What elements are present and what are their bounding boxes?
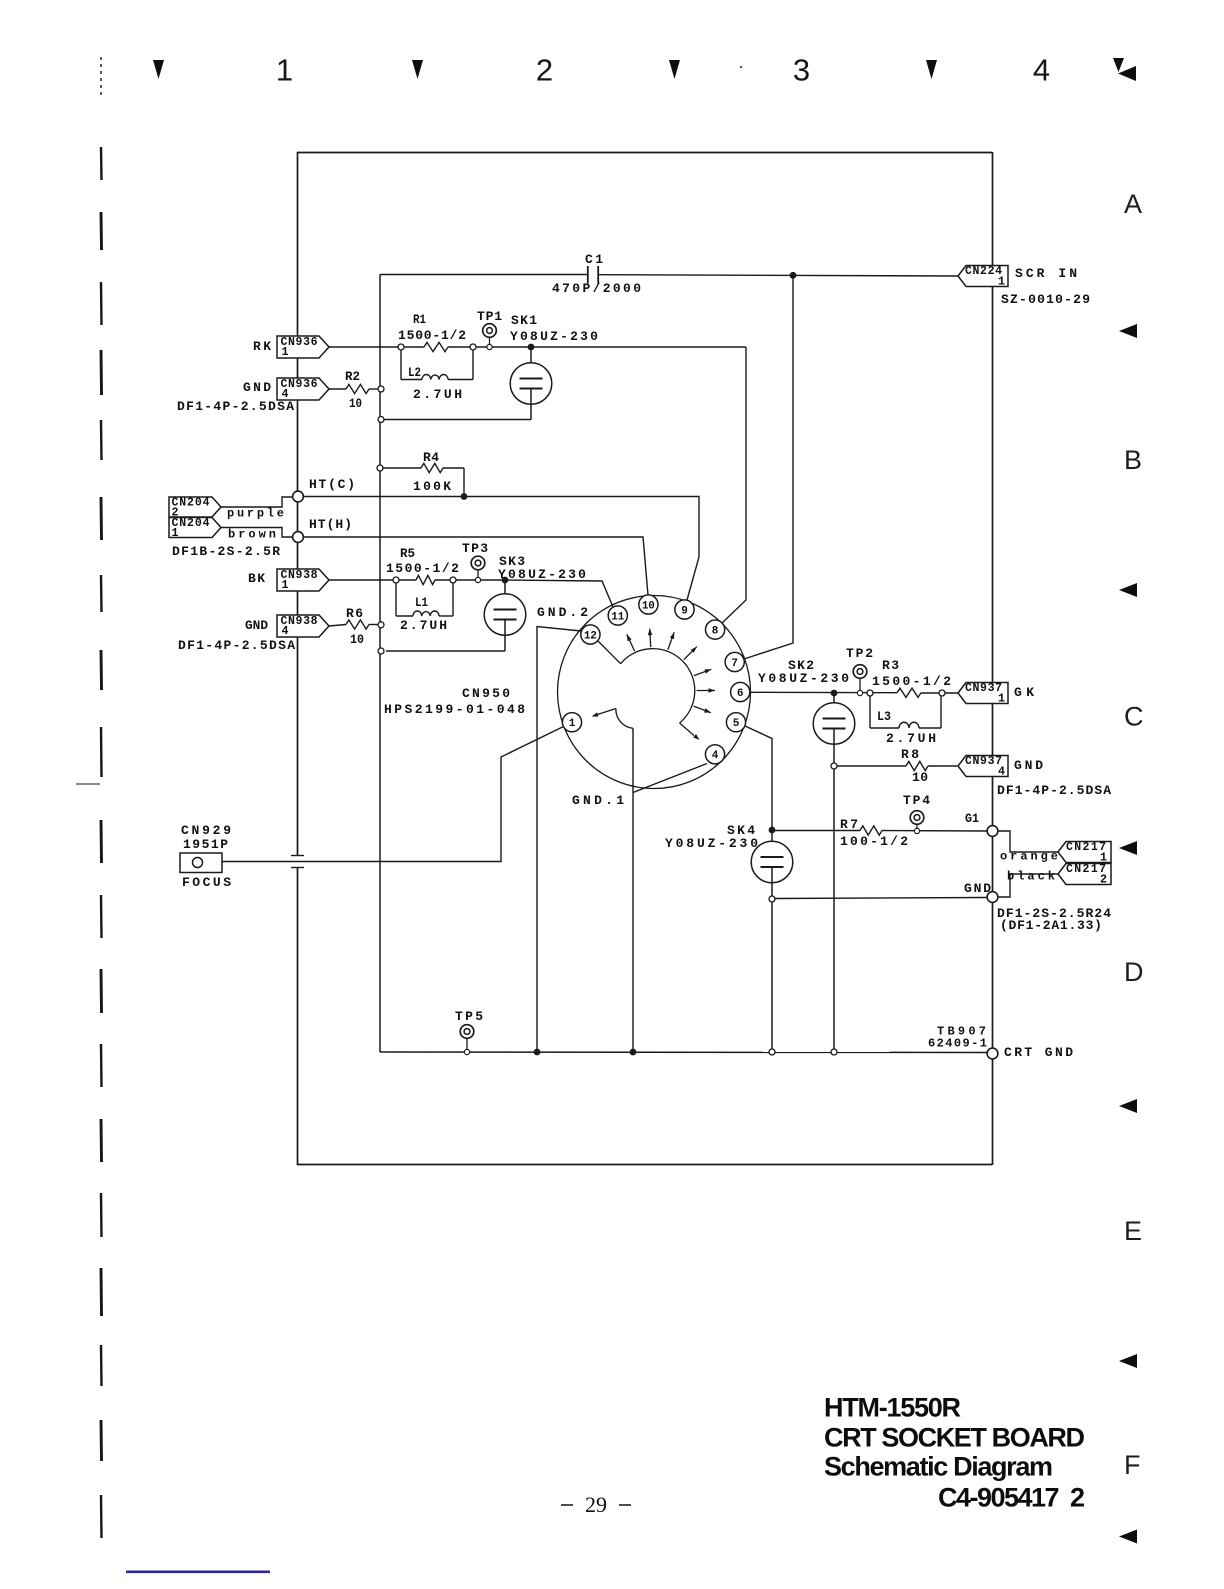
svg-text:DF1B-2S-2.5R: DF1B-2S-2.5R: [172, 544, 281, 559]
blue scan mark: [126, 1571, 270, 1574]
test point TP1: [477, 309, 503, 350]
svg-text:6: 6: [737, 688, 744, 700]
svg-text:4: 4: [998, 765, 1005, 778]
connector CN936 pin 4 (GND): [243, 378, 329, 401]
svg-text:1: 1: [998, 692, 1005, 705]
socket pin 11: [608, 606, 627, 625]
svg-text:G1: G1: [965, 811, 979, 826]
connector CN938 pin 4 (GND): [245, 615, 329, 638]
wire: HT(H) net to pin 10: [303, 517, 648, 595]
svg-text:R7: R7: [840, 817, 860, 832]
svg-text:E: E: [1124, 1216, 1142, 1246]
svg-text:BK: BK: [248, 571, 266, 586]
svg-text:C1: C1: [585, 252, 605, 267]
svg-text:(DF1-2A1.33): (DF1-2A1.33): [1000, 918, 1103, 933]
left margin binder marks: [76, 57, 102, 1538]
wire: SK4 to GND node: [775, 898, 987, 899]
svg-text:HPS2199-01-048: HPS2199-01-048: [384, 702, 528, 717]
svg-text:orange: orange: [1000, 849, 1061, 863]
socket pin 8: [706, 620, 725, 639]
svg-text:GK: GK: [1014, 685, 1038, 700]
connector CN224 pin 1 (SCR IN): [958, 265, 1091, 307]
svg-text:1951P: 1951P: [183, 837, 230, 852]
svg-text:29: 29: [585, 1492, 607, 1517]
node CRT GND (TB907): [928, 1024, 1075, 1060]
svg-text:Y08UZ-230: Y08UZ-230: [665, 836, 761, 851]
inductor L1: [396, 583, 453, 633]
svg-text:DF1-4P-2.5DSA: DF1-4P-2.5DSA: [177, 399, 295, 414]
capacitor C1: [552, 252, 643, 296]
label DF1-2S-2.5R24: [997, 906, 1112, 933]
svg-text:HT(C): HT(C): [309, 477, 357, 492]
svg-text:1: 1: [172, 527, 179, 540]
svg-text:RK: RK: [253, 339, 273, 354]
corner crop mark: [1113, 58, 1136, 81]
wire: RK net: [329, 346, 746, 348]
svg-text:GND: GND: [243, 380, 273, 395]
svg-text:L3: L3: [877, 709, 891, 724]
wire: HT(C) net to pin 9: [303, 477, 699, 600]
svg-text:TP1: TP1: [477, 309, 503, 324]
node G1: [965, 811, 1058, 852]
svg-text:Y08UZ-230: Y08UZ-230: [758, 671, 852, 686]
svg-text:DF1-4P-2.5DSA: DF1-4P-2.5DSA: [997, 783, 1112, 798]
spark gap SK3: [484, 554, 588, 651]
svg-text:100K: 100K: [413, 479, 453, 494]
svg-text:R5: R5: [400, 546, 415, 561]
svg-text:CRT GND: CRT GND: [1004, 1045, 1075, 1060]
svg-text:10: 10: [350, 632, 364, 647]
svg-text:8: 8: [712, 625, 719, 637]
test point TP2: [846, 646, 875, 696]
connector CN204 pin 1 (brown): [169, 517, 293, 541]
svg-text:TP3: TP3: [462, 541, 489, 556]
svg-text:CN937: CN937: [965, 682, 1003, 695]
right margin arrows: [1119, 324, 1137, 1544]
label DF1-4P-2.5DSA (3): [997, 783, 1112, 798]
svg-text:1: 1: [998, 275, 1005, 288]
wire: BK net to pin 11: [505, 580, 613, 607]
wire: pin 1 to FOCUS: [222, 727, 564, 862]
svg-text:D: D: [1124, 957, 1144, 987]
svg-text:4: 4: [282, 625, 289, 638]
label DF1-4P-2.5DSA: [177, 399, 295, 414]
svg-text:CN929: CN929: [181, 823, 234, 838]
inductor L3: [870, 696, 941, 746]
svg-text:3: 3: [793, 53, 810, 88]
test point TP4: [903, 793, 932, 834]
node HT(C): [293, 491, 304, 502]
svg-text:R1: R1: [413, 312, 426, 327]
socket pin 7: [725, 652, 744, 671]
svg-text:10: 10: [912, 770, 928, 785]
svg-text:TP5: TP5: [455, 1009, 485, 1024]
svg-text:2.7UH: 2.7UH: [886, 731, 939, 746]
svg-text:brown: brown: [228, 527, 279, 541]
wire: GK net (pin 6): [750, 691, 958, 694]
svg-text:Y08UZ-230: Y08UZ-230: [510, 329, 600, 344]
svg-text:FOCUS: FOCUS: [182, 875, 234, 890]
socket pin 6: [731, 682, 750, 701]
svg-text:black: black: [1007, 869, 1058, 883]
node HT(H): [293, 532, 304, 543]
connector CN217 pin 2 (black): [1007, 863, 1111, 887]
connector CN204 pin 2 (purple): [169, 497, 293, 521]
svg-text:11: 11: [611, 611, 624, 623]
svg-text:9: 9: [681, 605, 688, 617]
svg-text:R6: R6: [346, 606, 364, 621]
spark gap SK2: [758, 658, 855, 1055]
wire: pin 5 to SK4: [745, 726, 772, 830]
svg-text:R2: R2: [345, 369, 360, 384]
svg-text:470P/2000: 470P/2000: [552, 281, 643, 296]
svg-text:1: 1: [569, 718, 576, 730]
wire: ground bus bottom: [380, 1051, 988, 1054]
svg-text:GND: GND: [1014, 758, 1046, 773]
connector CN937 pin 4 (GND): [958, 755, 1046, 778]
svg-text:C: C: [1124, 702, 1144, 732]
resistor R2: [329, 369, 384, 411]
wire: focus crossover ticks on border: [291, 856, 304, 868]
resistor R3: [867, 658, 953, 697]
svg-text:TP2: TP2: [846, 646, 875, 661]
svg-text:C4-905417 2: C4-905417 2: [938, 1483, 1085, 1513]
svg-text:B: B: [1124, 445, 1142, 475]
spark gap SK1: [510, 313, 600, 420]
wire: SCR net vertical to pin 7: [744, 275, 793, 659]
title block: [824, 1393, 1085, 1513]
CRT socket CN950 body: [558, 596, 751, 789]
svg-text:4: 4: [1033, 53, 1050, 88]
junction node on SCR net: [790, 272, 797, 279]
svg-text:HTM-1550R: HTM-1550R: [824, 1393, 961, 1423]
resistor R6: [329, 606, 384, 647]
wire: ground bus vertical: [379, 275, 381, 1053]
svg-text:7: 7: [731, 658, 738, 670]
svg-text:2: 2: [1100, 874, 1107, 887]
svg-text:GND: GND: [245, 618, 268, 633]
svg-text:DF1-4P-2.5DSA: DF1-4P-2.5DSA: [178, 638, 296, 653]
connector CN937 pin 1 (GK): [958, 682, 1038, 705]
svg-text:1: 1: [282, 579, 289, 592]
svg-text:SZ-0010-29: SZ-0010-29: [1001, 292, 1091, 307]
resistor R8: [837, 747, 958, 785]
zone numbers 1 2 3 4: [276, 53, 1050, 88]
test point TP5: [455, 1009, 485, 1055]
socket pin 4: [705, 745, 724, 764]
svg-text:5: 5: [733, 718, 740, 730]
svg-text:CRT SOCKET BOARD: CRT SOCKET BOARD: [824, 1423, 1085, 1453]
wire: pin 4 to GND.1: [633, 764, 707, 793]
wire: BK net: [329, 579, 505, 581]
socket pin 5: [726, 713, 745, 732]
label DF1-4P-2.5DSA (2): [178, 638, 296, 653]
svg-text:4: 4: [712, 750, 719, 762]
resistor R7: [769, 817, 987, 849]
inductor L2: [401, 350, 473, 402]
svg-text:GND.2: GND.2: [537, 605, 591, 620]
connector CN938 pin 1 (BK): [248, 569, 329, 592]
svg-text:GND.1: GND.1: [572, 793, 627, 808]
node GND (CRT G1 return): [964, 874, 1058, 902]
svg-text:12: 12: [584, 630, 597, 642]
svg-text:CN950: CN950: [462, 686, 512, 701]
svg-text:CN224: CN224: [965, 265, 1003, 278]
svg-text:10: 10: [642, 600, 655, 612]
wire: SK1 ground return: [378, 417, 531, 423]
socket pin 1: [562, 713, 581, 732]
svg-text:2: 2: [536, 53, 553, 88]
socket pin 9: [675, 600, 694, 619]
svg-text:purple: purple: [227, 506, 287, 520]
wire: SK3 ground return: [378, 648, 505, 654]
top column markers: [153, 60, 937, 79]
svg-text:10: 10: [349, 396, 362, 411]
svg-text:A: A: [1124, 189, 1142, 219]
wire: RK net to pin 8: [722, 347, 746, 623]
label DF1B-2S-2.5R: [172, 544, 281, 559]
wire: top bus (SCR IN net): [380, 275, 958, 277]
socket pin 10: [639, 595, 658, 614]
svg-text:R4: R4: [423, 450, 439, 465]
svg-text:F: F: [1124, 1450, 1141, 1480]
connector CN929 (FOCUS): [180, 823, 234, 890]
svg-text:100-1/2: 100-1/2: [840, 834, 910, 849]
svg-text:R8: R8: [901, 747, 921, 762]
svg-text:2.7UH: 2.7UH: [400, 618, 449, 633]
svg-text:1: 1: [276, 53, 293, 88]
svg-text:SK1: SK1: [511, 313, 538, 328]
wire: GND.2 (pin 12 to ground bus): [534, 605, 591, 1055]
socket pin 12: [581, 625, 600, 644]
svg-text:R3: R3: [882, 658, 900, 673]
svg-text:1: 1: [282, 346, 289, 359]
svg-text:TP4: TP4: [903, 793, 932, 808]
svg-text:Schematic Diagram: Schematic Diagram: [824, 1452, 1053, 1482]
svg-text:L2: L2: [408, 365, 421, 380]
svg-text:1500-1/2: 1500-1/2: [398, 328, 467, 343]
zone letters A-F: [1124, 189, 1144, 1480]
svg-text:2.7UH: 2.7UH: [413, 387, 465, 402]
svg-text:SCR IN: SCR IN: [1015, 266, 1080, 281]
svg-text:1500-1/2: 1500-1/2: [386, 561, 461, 576]
resistor R5: [386, 546, 461, 585]
svg-text:HT(H): HT(H): [309, 517, 353, 532]
resistor R1: [398, 312, 476, 352]
wire: GND.1 (socket key to ground bus): [572, 728, 636, 1055]
svg-text:L1: L1: [415, 595, 428, 610]
page number 29: [561, 1492, 631, 1517]
svg-text:Y08UZ-230: Y08UZ-230: [498, 567, 588, 582]
schematic border: [297, 152, 993, 1165]
connector CN936 pin 1 (RK): [253, 336, 329, 359]
svg-text:CN937: CN937: [965, 755, 1003, 768]
svg-text:1500-1/2: 1500-1/2: [872, 674, 953, 689]
svg-text:62409-1: 62409-1: [928, 1036, 988, 1050]
resistor R4: [377, 450, 467, 500]
spark gap SK4: [665, 823, 793, 1055]
svg-text:GND: GND: [964, 881, 993, 896]
label CN950 HPS2199-01-048: [384, 686, 528, 717]
connector CN217 pin 1 (orange): [1000, 841, 1111, 865]
test point TP3: [462, 541, 489, 583]
